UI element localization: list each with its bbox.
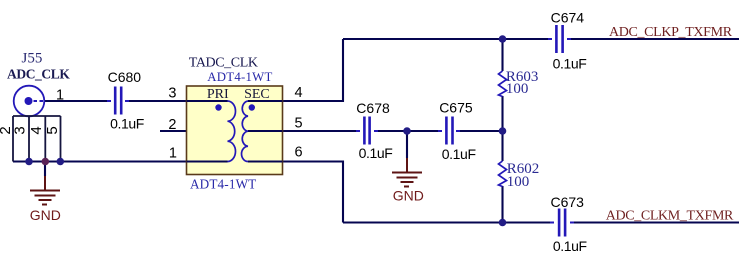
wire: R603 bottom lead to node [501, 96, 503, 131]
svg-text:0.1uF: 0.1uF [110, 116, 144, 132]
transformer inner wire pin1 to primary [187, 160, 228, 162]
wire: C680 to transformer pin3 [129, 100, 228, 102]
svg-text:ADT4-1WT: ADT4-1WT [207, 70, 272, 84]
svg-text:2: 2 [168, 117, 176, 133]
wire: node to R602 top [501, 131, 503, 161]
wire: C678 to C675 [378, 130, 438, 132]
svg-text:J55: J55 [22, 51, 43, 67]
transformer inner wire secondary tap to pin5 [248, 130, 283, 132]
svg-text:ADC_CLKP_TXFMR: ADC_CLKP_TXFMR [609, 25, 733, 40]
capacitor C675 [438, 117, 460, 145]
svg-text:ADC_CLK: ADC_CLK [7, 66, 70, 81]
secondary phase dot [249, 104, 255, 110]
svg-text:C675: C675 [439, 99, 473, 115]
svg-text:100: 100 [506, 81, 529, 97]
wire: transformer pin5 to C678 [248, 130, 356, 132]
svg-text:C673: C673 [551, 194, 585, 210]
junction dot bus pin3 [25, 158, 33, 166]
wire: top rail [343, 38, 548, 40]
svg-text:100: 100 [507, 174, 530, 190]
capacitor C674 [548, 25, 571, 53]
wire: transformer pin6 down to bottom rail [248, 162, 343, 223]
junction dot top rail [499, 35, 507, 43]
wire: connector pin1 to C680 [44, 100, 107, 102]
transformer inner wire secondary to pin4 [248, 100, 283, 102]
junction dot bus pin5 [57, 158, 65, 166]
svg-text:0.1uF: 0.1uF [553, 238, 587, 253]
svg-text:1: 1 [56, 87, 64, 103]
svg-text:C678: C678 [356, 100, 390, 116]
svg-text:0.1uF: 0.1uF [553, 56, 587, 72]
resistor R602 [499, 161, 507, 187]
resistor R603 [499, 71, 507, 97]
svg-text:1: 1 [169, 146, 177, 162]
wire: bottom rail right of C673 [574, 221, 739, 223]
wire: transformer pin2 stub [160, 130, 187, 132]
svg-text:4: 4 [295, 85, 303, 101]
primary phase dot [215, 104, 221, 110]
svg-text:5: 5 [295, 115, 303, 131]
ground symbol (connector) [30, 176, 60, 205]
svg-text:4: 4 [28, 126, 45, 134]
svg-text:0.1uF: 0.1uF [442, 146, 476, 162]
capacitor C680 [107, 87, 129, 115]
wire: gnd bus from connector to transformer pin1 [13, 160, 228, 162]
secondary winding [242, 101, 248, 162]
wire: gnd stub at C678/C675 node [406, 131, 408, 158]
wire: top rail right of C674 [571, 38, 739, 40]
svg-text:GND: GND [30, 207, 61, 223]
junction dot at gnd tap [403, 127, 411, 135]
junction dot bus pin4 (to gnd) [42, 158, 50, 166]
wire: R603 top lead [501, 39, 503, 71]
svg-text:3: 3 [168, 86, 176, 102]
transformer inner wire secondary to pin6 [248, 160, 283, 162]
svg-text:SEC: SEC [244, 87, 270, 102]
ground symbol (mid) [392, 158, 422, 187]
svg-text:C680: C680 [108, 69, 142, 85]
svg-text:5: 5 [44, 126, 61, 134]
svg-text:C674: C674 [551, 10, 585, 26]
svg-text:6: 6 [295, 145, 303, 161]
capacitor C673 [550, 209, 574, 237]
wire: bottom rail [343, 221, 550, 223]
svg-text:TADC_CLK: TADC_CLK [189, 55, 258, 70]
svg-text:ADC_CLKM_TXFMR: ADC_CLKM_TXFMR [606, 209, 734, 224]
capacitor C678 [356, 117, 378, 145]
primary winding [228, 101, 236, 162]
junction dot mid node [499, 127, 507, 135]
svg-text:GND: GND [393, 188, 424, 204]
wire: transformer pin4 up to top rail [248, 39, 343, 101]
svg-text:PRI: PRI [207, 87, 229, 102]
svg-text:3: 3 [12, 126, 29, 134]
wire: R602 bottom lead [501, 186, 503, 223]
svg-text:ADT4-1WT: ADT4-1WT [190, 177, 256, 192]
wire: C675 to resistor node [460, 130, 503, 132]
wire: connector gnd stub [44, 162, 46, 177]
transformer T1 box [187, 86, 283, 175]
svg-text:0.1uF: 0.1uF [359, 145, 393, 161]
transformer inner wire pin3 to primary [187, 100, 228, 102]
junction dot bottom rail [499, 219, 507, 227]
connector J55 body [13, 86, 61, 162]
